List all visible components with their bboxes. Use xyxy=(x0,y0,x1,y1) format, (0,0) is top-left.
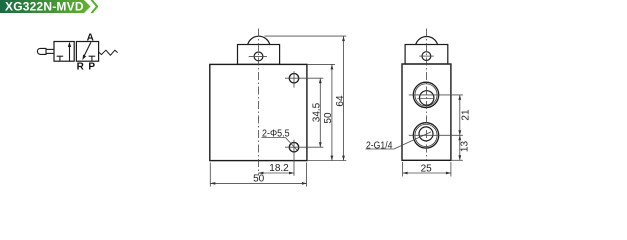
svg-text:25: 25 xyxy=(421,163,433,174)
svg-text:XG322N-MVD: XG322N-MVD xyxy=(5,0,84,14)
svg-text:13: 13 xyxy=(460,141,471,153)
svg-text:21: 21 xyxy=(460,109,471,121)
svg-text:2-G1/4: 2-G1/4 xyxy=(366,140,393,151)
svg-text:50: 50 xyxy=(253,173,265,184)
svg-text:A: A xyxy=(87,32,94,43)
svg-text:2-Φ5.5: 2-Φ5.5 xyxy=(262,128,290,139)
svg-text:34.5: 34.5 xyxy=(312,102,323,122)
svg-text:18.2: 18.2 xyxy=(269,163,289,174)
svg-text:50: 50 xyxy=(323,112,334,124)
svg-text:R: R xyxy=(77,62,85,73)
svg-text:P: P xyxy=(88,62,95,73)
svg-text:64: 64 xyxy=(335,95,346,107)
